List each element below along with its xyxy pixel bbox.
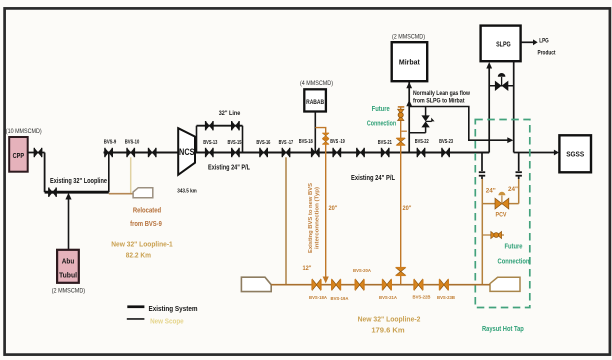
valve bypass right	[231, 121, 240, 130]
svg-text:New 32" Loopline-1: New 32" Loopline-1	[111, 241, 173, 248]
wire CPP to corner	[28, 152, 45, 154]
svg-text:PCV: PCV	[496, 212, 507, 218]
label Future Connection Raysut	[498, 243, 530, 265]
svg-text:New Scope: New Scope	[150, 316, 184, 325]
arrow up at lean gas junction	[406, 100, 412, 106]
plant box Mirbat	[392, 42, 428, 81]
svg-text:24": 24"	[508, 186, 518, 193]
valve BVS-18A	[311, 279, 321, 290]
svg-text:20": 20"	[403, 205, 412, 212]
svg-text:12": 12"	[303, 265, 312, 272]
wire existing 32in loopline (thick)	[45, 191, 109, 194]
svg-text:BVS-23B: BVS-23B	[437, 295, 456, 300]
wire SLPG right vertical (outlet)	[513, 62, 515, 153]
PCV control valve	[495, 192, 509, 209]
pig launcher loopline-2 start	[241, 277, 271, 291]
valve unnamed before NCS	[148, 148, 157, 157]
valve BVS-13	[205, 148, 214, 157]
control valve near Mirbat	[409, 107, 434, 133]
label New 32" Loopline-2 179.6 Km	[358, 316, 421, 334]
orange future connection riser at BVS-21	[398, 107, 407, 153]
label Normally Lean gas flow from SLPG to Mirbat	[413, 91, 470, 105]
svg-text:Existing 24" P/L: Existing 24" P/L	[351, 175, 396, 182]
small orange valve on interconnect upper	[322, 133, 329, 139]
valve on loopline	[48, 188, 57, 197]
svg-text:(2 MMSCMD): (2 MMSCMD)	[392, 35, 425, 41]
svg-text:24": 24"	[486, 187, 496, 194]
svg-text:BVS-16: BVS-16	[256, 140, 270, 146]
arrow up into SLPG	[486, 62, 492, 69]
svg-text:Relocated: Relocated	[133, 207, 161, 214]
valve BVS-9	[104, 148, 113, 157]
wire bypass riser left	[196, 126, 198, 153]
wire NCS to SLPG junction	[195, 152, 489, 154]
svg-text:82.2 Km: 82.2 Km	[126, 252, 151, 259]
wire RABAB drop	[314, 112, 316, 153]
orange 12in drop from BVS-17	[285, 157, 287, 284]
svg-text:Normally Lean gas flow: Normally Lean gas flow	[413, 91, 470, 97]
arrow up into loopline from Abu Tubul	[65, 193, 71, 200]
plant box SGSS	[559, 135, 591, 172]
svg-text:20": 20"	[329, 205, 338, 212]
svg-text:BVS -19: BVS -19	[330, 139, 345, 145]
svg-text:179.6 Km: 179.6 Km	[371, 327, 404, 334]
svg-text:Tubul: Tubul	[59, 273, 77, 280]
svg-text:LPG: LPG	[539, 39, 549, 45]
hot tap stub left	[479, 153, 485, 180]
valve BVS-19A	[331, 279, 341, 290]
valve unnamed BVS-20	[356, 148, 365, 157]
wire SLPG left vertical (inlet)	[488, 68, 490, 153]
svg-text:New 32" Loopline-2: New 32" Loopline-2	[358, 316, 421, 323]
label New 32" Loopline-1 82.2 Km	[111, 241, 173, 259]
svg-text:Product: Product	[538, 51, 556, 57]
valve BVS-17	[282, 148, 291, 157]
orange ball valve on future riser	[398, 109, 405, 120]
svg-text:BVS-22: BVS-22	[415, 139, 429, 145]
svg-text:BVS-18A: BVS-18A	[309, 295, 328, 300]
orange interconnect from RABAB line	[315, 128, 325, 277]
valve BVS-21	[381, 148, 390, 157]
wire bypass riser right	[242, 126, 244, 153]
svg-text:NCS: NCS	[179, 147, 195, 157]
arrow right LPG product	[533, 39, 538, 45]
hot tap stub right	[516, 153, 522, 180]
pig launcher Raysut	[490, 277, 520, 291]
svg-text:Existing 32" Loopline: Existing 32" Loopline	[50, 178, 107, 185]
wire main line SLPG outlet to SGSS	[514, 152, 555, 154]
label Relocated from BVS-9	[130, 207, 162, 228]
orange 24in right vertical	[518, 179, 520, 204]
orange wire loopline to relocated pig	[109, 193, 133, 195]
svg-text:BVS-22B: BVS-22B	[413, 295, 432, 300]
svg-text:BVS-21: BVS-21	[378, 140, 392, 146]
svg-text:32" Line: 32" Line	[219, 110, 241, 117]
valve BVS-21A	[382, 279, 392, 290]
control valve on SLPG jumper	[495, 73, 508, 91]
legend existing system line	[127, 305, 144, 308]
valve BVS-15	[231, 148, 240, 157]
valve BVS-18	[311, 148, 320, 157]
plant box RABAB	[304, 89, 326, 111]
wire corner down to loopline	[44, 153, 46, 193]
svg-text:Future: Future	[504, 243, 522, 250]
plant box SLPG	[481, 26, 521, 62]
svg-text:BVS-10: BVS-10	[125, 140, 140, 146]
svg-text:(2 MMSCMD): (2 MMSCMD)	[52, 288, 85, 294]
svg-text:CPP: CPP	[13, 151, 25, 160]
svg-text:Abu: Abu	[62, 259, 75, 266]
svg-text:Existing BVS to new BVS: Existing BVS to new BVS	[308, 182, 314, 253]
svg-text:Connection: Connection	[498, 259, 530, 266]
arrow down interconnect into loopline-2	[323, 277, 329, 284]
orange 24in left vertical	[481, 179, 483, 285]
valve BVS-10	[126, 148, 135, 157]
valve BVS-22B	[413, 279, 423, 290]
svg-text:BVS-21A: BVS-21A	[379, 295, 398, 300]
compressor NCS	[178, 128, 195, 175]
green dashed Raysut box	[475, 120, 530, 308]
orange valve lower on future riser	[396, 138, 405, 146]
svg-text:from BVS-9: from BVS-9	[130, 221, 162, 228]
svg-text:BVS-13: BVS-13	[203, 140, 217, 146]
arrow right into SLPG outlet line	[507, 137, 513, 143]
wire Abu Tubul vertical	[68, 198, 70, 250]
svg-text:(10 MMSCMD): (10 MMSCMD)	[6, 129, 42, 135]
valve bypass left	[205, 121, 214, 130]
orange 20in drop below BVS-21 future connection	[400, 153, 402, 285]
arrow up below Mirbat box	[406, 82, 412, 88]
label Future Connection at BVS-21	[367, 106, 396, 127]
svg-text:BVS-23: BVS-23	[439, 139, 453, 145]
small orange valve on interconnect lower	[322, 138, 329, 144]
orange PCV cross line	[482, 203, 518, 205]
svg-text:BVS-20A: BVS-20A	[353, 268, 372, 273]
valve BVS-23B	[439, 279, 449, 290]
wire 32in bypass top line	[197, 125, 243, 127]
plant box CPP	[9, 137, 28, 172]
valve BVS-20A	[355, 279, 365, 290]
valve BVS-23	[441, 148, 450, 157]
wire Mirbat drop to main line	[408, 81, 410, 152]
plant box Abu Tubul	[57, 250, 79, 283]
svg-text:BVS-9: BVS-9	[104, 140, 117, 146]
svg-text:from SLPG to Mirbat: from SLPG to Mirbat	[413, 98, 465, 104]
orange wire new loopline-2	[271, 284, 490, 286]
svg-text:RABAB: RABAB	[306, 99, 324, 106]
svg-text:Existing System: Existing System	[149, 304, 198, 313]
svg-text:Connection: Connection	[367, 121, 396, 128]
svg-text:SGSS: SGSS	[566, 152, 584, 159]
valve after CPP	[34, 148, 43, 157]
orange valve on 20in drop	[396, 267, 406, 276]
pig launcher relocated from BVS-9	[133, 188, 153, 198]
svg-text:Existing 24" P/L: Existing 24" P/L	[208, 164, 251, 171]
orange future stub with ball valve	[482, 231, 504, 238]
svg-text:(4 MMSCMD): (4 MMSCMD)	[300, 81, 333, 87]
wire lean gas horizontal	[409, 107, 508, 141]
wire main line BVS-9 to NCS	[104, 152, 179, 154]
svg-text:SLPG: SLPG	[496, 39, 511, 48]
wire SLPG to LPG product arrow	[521, 41, 534, 43]
svg-text:BVS-19A: BVS-19A	[331, 296, 350, 301]
valve BVS-19	[332, 148, 341, 157]
svg-text:BVS-15: BVS-15	[228, 140, 242, 146]
svg-text:343.5 km: 343.5 km	[177, 189, 197, 195]
svg-text:Mirbat: Mirbat	[399, 58, 420, 67]
svg-text:BVS-18: BVS-18	[299, 139, 313, 145]
svg-text:interconnection (Typ): interconnection (Typ)	[315, 187, 321, 249]
arrow into SGSS	[554, 150, 559, 156]
svg-text:BVS -17: BVS -17	[279, 140, 294, 146]
valve BVS-16	[259, 148, 268, 157]
wire riser up to BVS-9	[108, 153, 110, 193]
label LPG Product	[538, 39, 556, 57]
svg-text:Raysut Hot Tap: Raysut Hot Tap	[482, 326, 524, 333]
pale new line drop below BVS-10	[130, 157, 132, 193]
wire SLPG bypass jumper	[489, 85, 514, 87]
valve BVS-22	[417, 148, 426, 157]
svg-text:Future: Future	[372, 106, 390, 113]
legend new scope line	[127, 318, 145, 320]
